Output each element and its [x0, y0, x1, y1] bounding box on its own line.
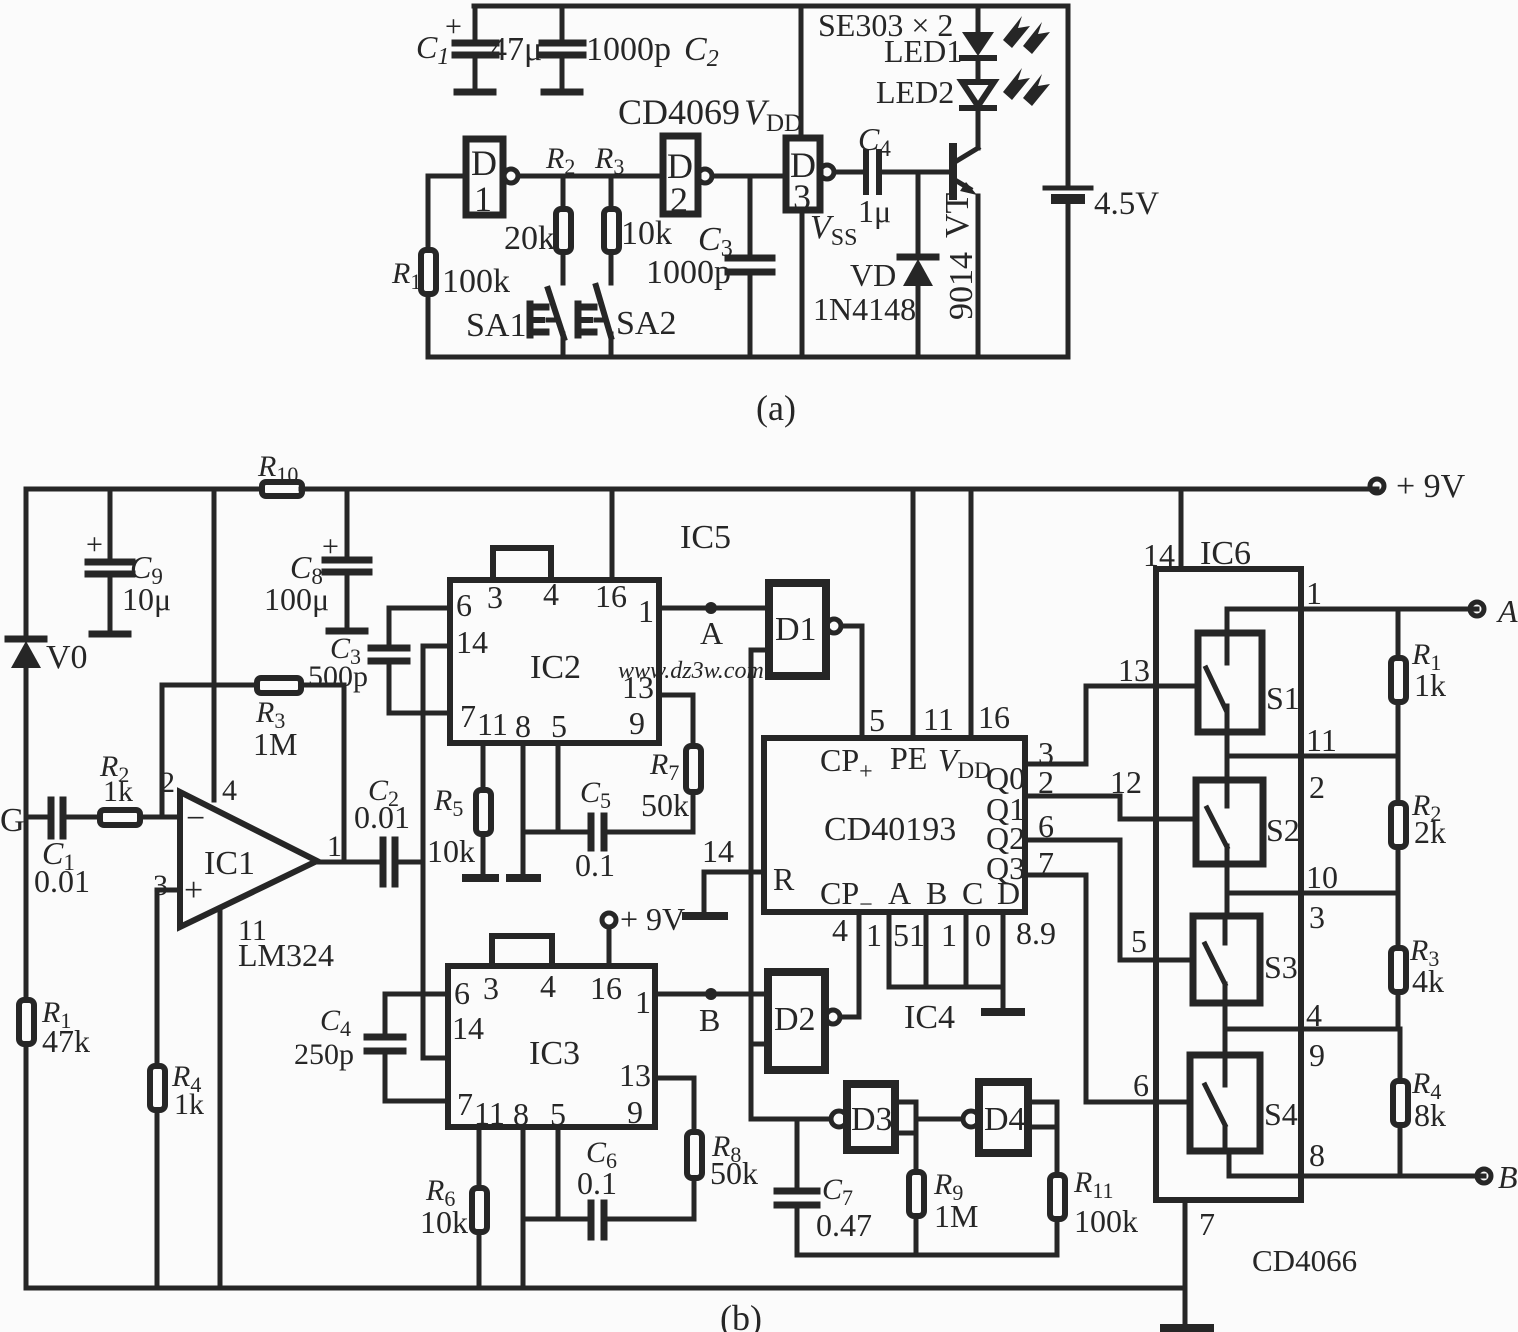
svg-text:S1: S1: [1266, 680, 1300, 716]
svg-text:4: 4: [543, 576, 559, 612]
capacitor C4 1u: [858, 121, 891, 229]
svg-text:11: 11: [923, 701, 954, 737]
svg-text:IC1: IC1: [204, 845, 255, 882]
svg-text:G: G: [0, 802, 25, 839]
svg-text:4: 4: [222, 774, 237, 807]
svg-text:D: D: [997, 875, 1020, 911]
switch SA1: [466, 289, 564, 357]
svg-text:14: 14: [702, 833, 734, 869]
svg-text:+: +: [322, 530, 339, 563]
svg-text:4: 4: [832, 912, 848, 948]
wire IC2 pin8 drop: [521, 743, 526, 875]
svg-text:9: 9: [627, 1094, 643, 1130]
wire monostable bottom: [797, 1253, 1057, 1258]
svg-text:−: −: [186, 800, 205, 837]
svg-text:+ 9V: + 9V: [1396, 468, 1466, 505]
resistor R1 1k ladder: [1391, 609, 1446, 756]
gate D3: [831, 1084, 895, 1150]
switch S2: [1196, 780, 1300, 864]
svg-text:LM324: LM324: [238, 937, 334, 973]
wire IC6 pin14 supply: [1179, 489, 1184, 569]
diode VD 1N4148: [813, 172, 936, 357]
svg-text:6: 6: [1038, 808, 1054, 844]
inverter D3: [786, 138, 834, 217]
svg-text:0.47: 0.47: [816, 1207, 872, 1243]
wire VDD drop to D3: [799, 6, 804, 138]
wire IC2 pin7 / C3 bottom: [389, 711, 450, 716]
resistor R2 2k ladder: [1391, 756, 1446, 893]
wire D2 out to D3: [712, 174, 786, 179]
wire IC1 output: [317, 860, 379, 865]
svg-text:PE: PE: [890, 740, 927, 776]
svg-text:14: 14: [1143, 537, 1175, 573]
capacitor C2 0.01 coupling: [354, 774, 423, 884]
svg-text:2: 2: [1309, 769, 1325, 805]
wire collector up: [976, 109, 981, 148]
ground IC4: [985, 1008, 1021, 1016]
ground R pin: [686, 912, 724, 920]
wire D2 out to CD40193 pin4: [832, 912, 859, 1017]
gate D1: [769, 583, 841, 676]
wire Q2 to S3 control (pin5): [1025, 808, 1193, 960]
svg-text:+: +: [445, 10, 462, 43]
svg-text:+ 9V: + 9V: [620, 901, 685, 937]
svg-text:50k: 50k: [641, 787, 689, 823]
IC IC6 CD4066 box: [1143, 535, 1301, 1200]
svg-text:0.1: 0.1: [577, 1165, 617, 1201]
svg-text:11: 11: [1306, 722, 1337, 758]
resistor R10: [257, 450, 302, 496]
resistor R8 50k: [687, 1130, 758, 1219]
resistor R1 100k: [391, 250, 510, 300]
svg-text:0.01: 0.01: [34, 863, 90, 899]
diode V0: [8, 639, 88, 676]
svg-text:7: 7: [457, 1086, 473, 1122]
svg-text:7: 7: [1199, 1206, 1215, 1242]
capacitor C5 0.1: [523, 776, 693, 883]
svg-text:3: 3: [483, 970, 499, 1006]
wire IC3 pin5 drop: [556, 1127, 561, 1219]
svg-text:100μ: 100μ: [264, 581, 329, 617]
wire bottom rail (a): [428, 355, 1068, 360]
svg-text:1N4148: 1N4148: [813, 291, 916, 327]
svg-text:9: 9: [629, 705, 645, 741]
capacitor C3 500p: [308, 608, 407, 713]
svg-text:10μ: 10μ: [122, 581, 171, 617]
wire S3/S4 junction pin4: [1225, 997, 1398, 1073]
wire D2 lower input stub: [751, 1042, 768, 1047]
svg-text:R: R: [773, 861, 795, 897]
svg-text:2: 2: [1038, 764, 1054, 800]
svg-text:3: 3: [487, 579, 503, 615]
terminal A: [1470, 593, 1518, 629]
gate D2: [768, 972, 840, 1070]
svg-text:www.dz3w.com: www.dz3w.com: [618, 658, 764, 684]
wire R1 branch / left loop: [428, 176, 466, 357]
wire Q3 to S4 control (pin6): [1025, 845, 1190, 1103]
wire D3 out: [834, 170, 863, 175]
svg-text:B: B: [1498, 1159, 1518, 1195]
resistor R6 10k: [420, 1127, 487, 1288]
svg-text:V0: V0: [46, 639, 88, 676]
wire S2/S3 junction pin10: [1227, 859, 1398, 935]
IC IC2 (CD4060): [450, 548, 659, 744]
capacitor C7 0.47: [777, 1119, 872, 1255]
svg-text:0.01: 0.01: [354, 799, 410, 835]
svg-text:51: 51: [893, 917, 925, 953]
wire IC2 pin14 to IC3 pin14: [423, 646, 450, 1058]
svg-text:8: 8: [1309, 1137, 1325, 1173]
svg-text:+: +: [184, 872, 203, 909]
capacitor C1 0.01: [26, 800, 100, 899]
resistor R5 10k: [427, 743, 491, 875]
wire IC2 pin6: [389, 606, 450, 611]
svg-text:SA1: SA1: [466, 307, 526, 344]
wire IC1 V+ drop: [212, 489, 217, 800]
ground IC2 pin8: [506, 874, 541, 882]
wire D3 input: [751, 1117, 830, 1122]
resistor R3 1M feedback: [162, 678, 344, 862]
svg-text:5: 5: [869, 702, 885, 738]
wire op-amp pin11 ground drop: [218, 908, 223, 1288]
wire D1 out to D2 in: [518, 174, 663, 179]
wire bottom rail (b): [26, 1286, 1185, 1291]
svg-text:D2: D2: [774, 1001, 816, 1038]
wire Q0 to S1 control (pin13): [1025, 652, 1198, 771]
capacitor C9 10u: [86, 489, 171, 634]
svg-text:6: 6: [1133, 1067, 1149, 1103]
terminal +9V right: [1370, 468, 1466, 505]
resistor R3 4k ladder: [1391, 893, 1444, 1029]
svg-text:13: 13: [1118, 652, 1150, 688]
svg-text:1k: 1k: [1414, 667, 1446, 703]
resistor R1 47k: [19, 996, 90, 1059]
resistor R4 8k ladder: [1393, 1029, 1446, 1176]
svg-text:100k: 100k: [442, 263, 510, 300]
svg-text:14: 14: [456, 624, 488, 660]
wire D1 out to CD40193 pin5: [841, 626, 885, 738]
wire CD40193 R pin to ground: [702, 833, 764, 913]
svg-text:IC4: IC4: [904, 999, 955, 1036]
capacitor C8 100u: [264, 489, 369, 631]
svg-text:A: A: [700, 615, 723, 651]
wire IC6 pin7 ground: [1185, 1200, 1215, 1326]
wire IC3 pin8 drop: [521, 1127, 526, 1288]
battery 4.5V: [1045, 6, 1159, 357]
svg-text:47μ: 47μ: [490, 31, 542, 68]
svg-text:A: A: [1496, 593, 1518, 629]
svg-text:(a): (a): [756, 388, 796, 428]
wire S1 top to A line: [1227, 609, 1477, 633]
svg-text:20k: 20k: [504, 220, 555, 257]
wire supply drop pin11 CD40193: [913, 489, 954, 738]
wire D3 bottom to rail: [800, 210, 805, 357]
wire +9V top rail: [26, 487, 1377, 492]
svg-text:5: 5: [551, 708, 567, 744]
wire IC2 pin1 to D1 (node A): [659, 602, 769, 651]
wire D3 output bracket: [895, 1102, 962, 1172]
svg-text:B: B: [699, 1002, 720, 1038]
svg-text:4.5V: 4.5V: [1094, 186, 1159, 222]
svg-text:1: 1: [638, 593, 654, 629]
svg-text:47k: 47k: [42, 1023, 90, 1059]
svg-text:11: 11: [477, 706, 508, 742]
svg-text:VD: VD: [850, 257, 896, 293]
svg-text:10k: 10k: [621, 215, 672, 252]
svg-text:8k: 8k: [1414, 1097, 1446, 1133]
svg-text:7: 7: [460, 698, 476, 734]
wire Q1 to S2 control (pin12): [1025, 764, 1196, 819]
wire IC3 pin13 to R8: [655, 1078, 694, 1132]
svg-text:1: 1: [635, 984, 651, 1020]
svg-text:500p: 500p: [308, 660, 368, 693]
svg-text:6: 6: [454, 975, 470, 1011]
svg-text:1: 1: [941, 917, 957, 953]
svg-text:VT: VT: [939, 192, 976, 238]
svg-text:SA2: SA2: [616, 305, 676, 342]
inverter D1: [466, 139, 518, 219]
svg-text:LED2: LED2: [876, 74, 954, 110]
wire IC2 pin16 supply: [610, 489, 615, 580]
gate D4: [963, 1082, 1028, 1153]
terminal B: [1477, 1159, 1518, 1195]
svg-text:IC3: IC3: [529, 1035, 580, 1072]
wire supply drop pin16 CD40193: [971, 489, 1010, 738]
svg-text:B: B: [926, 875, 947, 911]
svg-text:9014: 9014: [943, 252, 980, 320]
svg-text:10k: 10k: [427, 833, 475, 869]
svg-text:S3: S3: [1264, 949, 1298, 985]
capacitor C4 250p: [294, 994, 448, 1101]
svg-text:1M: 1M: [934, 1198, 978, 1234]
svg-text:SE303 × 2: SE303 × 2: [818, 7, 953, 43]
switch S4: [1190, 1055, 1298, 1151]
wire C4 to base: [881, 170, 950, 175]
svg-text:CD4066: CD4066: [1252, 1243, 1357, 1278]
svg-text:9: 9: [1309, 1037, 1325, 1073]
svg-text:16: 16: [595, 578, 627, 614]
svg-text:(b): (b): [720, 1298, 762, 1332]
resistor R2 1k input: [99, 750, 180, 825]
svg-text:16: 16: [590, 970, 622, 1006]
wire LED top: [976, 6, 981, 32]
svg-text:CD40193: CD40193: [824, 811, 956, 848]
svg-text:4: 4: [540, 968, 556, 1004]
svg-text:13: 13: [619, 1057, 651, 1093]
svg-text:1: 1: [474, 179, 492, 219]
svg-text:D3: D3: [851, 1101, 893, 1138]
svg-text:3: 3: [1309, 899, 1325, 935]
svg-text:1000p: 1000p: [586, 31, 671, 68]
svg-text:4: 4: [1306, 997, 1322, 1033]
svg-text:0: 0: [975, 917, 991, 953]
resistor R4 1k: [150, 890, 204, 1288]
capacitor C2: [542, 6, 719, 92]
inverter D2: [663, 136, 712, 220]
svg-text:10: 10: [1306, 859, 1338, 895]
wire D4 output bracket: [1028, 1102, 1057, 1175]
svg-text:1000p: 1000p: [646, 254, 731, 291]
switch SA2: [578, 286, 676, 357]
svg-text:1k: 1k: [103, 775, 133, 808]
svg-text:IC5: IC5: [680, 519, 731, 556]
svg-text:250p: 250p: [294, 1038, 354, 1071]
svg-text:2k: 2k: [1414, 814, 1446, 850]
transistor VT 9014: [939, 147, 980, 320]
svg-text:14: 14: [452, 1010, 484, 1046]
svg-text:7: 7: [1038, 845, 1054, 881]
resistor R3 10k: [604, 176, 672, 283]
svg-text:S2: S2: [1266, 812, 1300, 848]
wire IC3 pin1 to D2 (node B): [655, 988, 768, 1038]
svg-text:D: D: [471, 143, 497, 183]
capacitor C6 0.1: [523, 1136, 694, 1237]
wire top rail (a): [474, 4, 1068, 9]
svg-text:CD4069: CD4069: [618, 92, 740, 132]
svg-text:1: 1: [1306, 575, 1322, 611]
ground IC6 pin7: [1164, 1324, 1210, 1332]
ground R5: [462, 874, 499, 882]
resistor R9 1M: [909, 1168, 978, 1255]
wire left vertical: [24, 489, 29, 1288]
wire S4 bottom to B line pin8: [1229, 1137, 1484, 1176]
svg-text:1M: 1M: [253, 726, 297, 762]
IC CD40193: [764, 738, 1025, 918]
capacitor C3 1000p: [646, 176, 772, 357]
svg-text:1μ: 1μ: [858, 193, 891, 229]
svg-text:+: +: [86, 528, 103, 561]
wire emitter down: [976, 196, 981, 357]
capacitor C1: [416, 6, 542, 92]
svg-text:10k: 10k: [420, 1204, 468, 1240]
switch S3: [1193, 916, 1298, 1003]
svg-text:8: 8: [515, 708, 531, 744]
svg-text:D1: D1: [775, 611, 817, 648]
resistor R11 100k: [1050, 1166, 1138, 1255]
op-amp IC1 LM324: [153, 766, 342, 973]
svg-text:8.9: 8.9: [1016, 915, 1056, 951]
IC IC3 (CD4060): [448, 936, 655, 1132]
terminal +9V mid: [602, 901, 685, 966]
resistor R7 50k: [641, 746, 701, 832]
wire S1/S2 junction pin11: [1227, 722, 1398, 805]
wire IC2 pin13 to R7: [659, 695, 693, 746]
svg-text:1: 1: [327, 830, 342, 863]
svg-text:100k: 100k: [1074, 1203, 1138, 1239]
svg-text:50k: 50k: [710, 1155, 758, 1191]
svg-text:5: 5: [1131, 923, 1147, 959]
wire IC4 ABCD stubs: [866, 912, 1056, 1009]
svg-text:1k: 1k: [174, 1088, 204, 1121]
svg-text:IC2: IC2: [530, 649, 581, 686]
switch S1: [1198, 633, 1300, 732]
svg-text:C: C: [962, 875, 983, 911]
svg-text:1: 1: [866, 917, 882, 953]
wire D1 lower input vertical: [751, 650, 769, 1119]
svg-text:4k: 4k: [1412, 963, 1444, 999]
wire plus input: [157, 888, 180, 893]
wire IC2 pin5 drop: [556, 743, 561, 832]
resistor R2 20k: [504, 176, 571, 283]
svg-text:A: A: [888, 875, 911, 911]
led LED2: [876, 68, 1050, 110]
svg-text:12: 12: [1110, 764, 1142, 800]
led LED1: [884, 16, 1050, 82]
svg-text:IC6: IC6: [1200, 535, 1251, 572]
svg-text:6: 6: [456, 587, 472, 623]
svg-text:2: 2: [670, 180, 688, 220]
svg-text:16: 16: [978, 699, 1010, 735]
svg-text:S4: S4: [1264, 1096, 1298, 1132]
svg-text:D4: D4: [984, 1101, 1026, 1138]
svg-text:2: 2: [160, 766, 175, 799]
svg-text:0.1: 0.1: [575, 847, 615, 883]
